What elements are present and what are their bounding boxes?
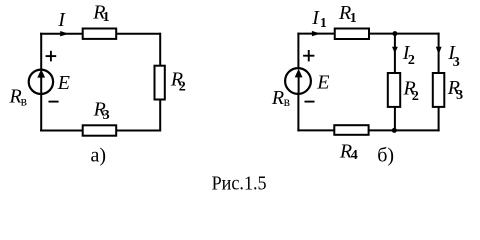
svg-text:E: E	[57, 72, 70, 94]
svg-text:1: 1	[103, 10, 110, 25]
svg-text:E: E	[316, 72, 329, 94]
svg-text:2: 2	[408, 53, 415, 68]
svg-text:1: 1	[320, 16, 327, 31]
svg-text:2: 2	[179, 79, 186, 94]
svg-text:а): а)	[91, 145, 107, 167]
svg-text:Рис.1.5: Рис.1.5	[212, 172, 267, 194]
svg-text:3: 3	[103, 108, 110, 123]
svg-text:1: 1	[350, 11, 357, 26]
svg-text:б): б)	[377, 145, 394, 167]
svg-text:в: в	[284, 94, 290, 109]
svg-text:3: 3	[453, 55, 460, 70]
svg-text:2: 2	[412, 89, 419, 104]
svg-text:R: R	[271, 87, 284, 109]
svg-text:в: в	[21, 93, 27, 108]
svg-text:4: 4	[351, 148, 358, 163]
svg-text:I: I	[57, 9, 66, 31]
svg-text:3: 3	[456, 88, 463, 103]
